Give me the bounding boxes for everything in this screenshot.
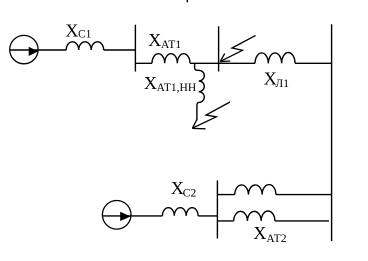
inductor XC2 bbox=[162, 208, 198, 216]
wire XC2 to bus D bbox=[198, 215, 217, 217]
fault arrow K2 (lightning, at XAT1,HH terminal) bbox=[192, 102, 230, 129]
svg-text:C2: C2 bbox=[183, 188, 197, 200]
bus A (node, left bus) bbox=[134, 25, 136, 72]
wire bus D to inductor XAT2 upper bbox=[217, 194, 234, 196]
label XAT1 bbox=[148, 30, 181, 51]
wire XAT2 lower toward bus C bbox=[275, 220, 329, 222]
wire G2 to inductor XC2 bbox=[102, 215, 162, 217]
svg-text:X: X bbox=[65, 20, 78, 40]
inductor XAT2 upper winding bbox=[235, 185, 276, 195]
source G2 (system source, bottom) bbox=[102, 201, 131, 230]
svg-text:АТ2: АТ2 bbox=[266, 233, 286, 245]
svg-text:Л1: Л1 bbox=[275, 78, 289, 90]
wire XL1 to bus C bbox=[295, 62, 332, 64]
label XL1 bbox=[264, 69, 289, 91]
inductor XAT1,HH (vertical, LV winding branch) bbox=[195, 63, 205, 120]
label XAT2 bbox=[253, 223, 286, 245]
wire bus D to inductor XAT2 lower bbox=[217, 220, 233, 222]
label XAT1,HH bbox=[144, 73, 196, 94]
inductor XL1 (line reactance) bbox=[255, 52, 295, 63]
svg-text:C1: C1 bbox=[78, 29, 92, 41]
inductor XAT1 bbox=[152, 54, 190, 64]
svg-text:X: X bbox=[148, 30, 161, 50]
svg-text:АТ1: АТ1 bbox=[161, 39, 181, 51]
wire XC1 to bus A bbox=[104, 49, 136, 51]
svg-text:X: X bbox=[144, 73, 157, 93]
bus C (node, right bus) bbox=[331, 24, 333, 241]
svg-text:АТ1,НН: АТ1,НН bbox=[157, 82, 197, 94]
label XC2 bbox=[171, 178, 197, 200]
svg-text:X: X bbox=[253, 223, 266, 243]
wire bus A to inductor XAT1 bbox=[135, 62, 152, 64]
tick mark at top edge bbox=[186, 0, 188, 2]
wire XAT2 upper to bus C bbox=[276, 194, 332, 196]
label XC1 bbox=[65, 20, 91, 40]
bus D (node, bottom middle bus) bbox=[216, 180, 218, 238]
fault arrow K1 (lightning, at bus B) bbox=[220, 36, 255, 62]
wire G1 to inductor XC1 bbox=[10, 49, 66, 51]
bus B (node, middle bus) bbox=[218, 26, 220, 71]
wire XAT1 through bus B to XL1 bbox=[190, 62, 255, 64]
inductor XC1 bbox=[66, 42, 104, 50]
source G1 (system source, top left) bbox=[10, 35, 38, 63]
inductor XAT2 lower winding bbox=[234, 211, 275, 221]
